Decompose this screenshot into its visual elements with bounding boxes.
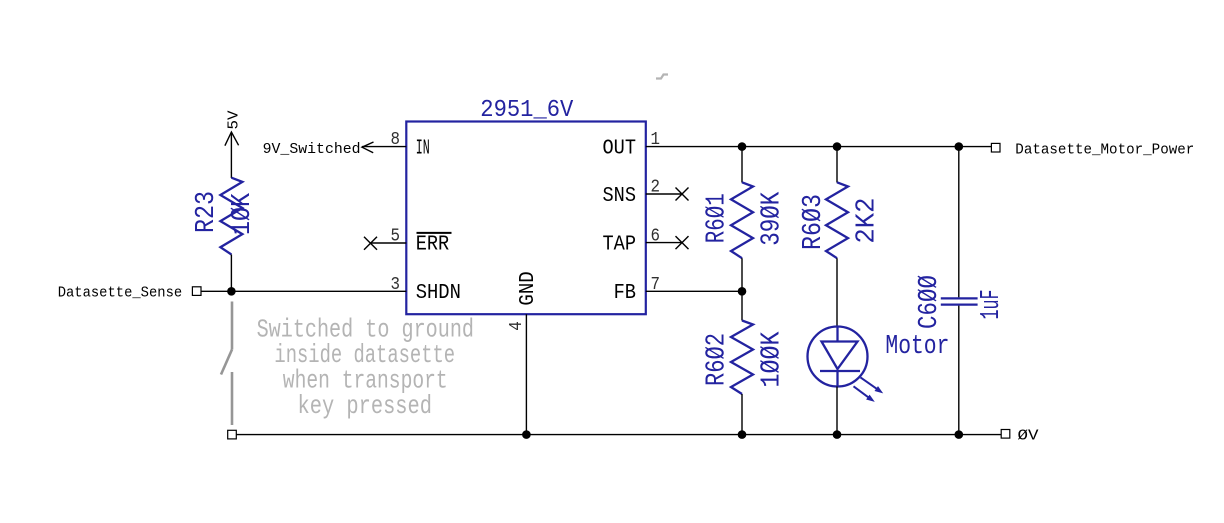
LED light arrow 1: [861, 377, 884, 393]
svg-text:inside datasette: inside datasette: [274, 342, 455, 370]
LED light arrow 2: [854, 386, 875, 402]
switch upper contact wire (grey): [231, 302, 234, 350]
svg-text:Datasette_Motor_Power: Datasette_Motor_Power: [1015, 141, 1194, 158]
svg-text:Datasette_Sense: Datasette_Sense: [58, 284, 183, 301]
net terminal square Datasette_Sense: [192, 287, 201, 296]
LED cathode lead inside: [836, 371, 838, 387]
svg-text:7: 7: [651, 275, 661, 295]
svg-text:FB: FB: [614, 282, 636, 305]
net terminal square Datasette_Motor_Power: [991, 143, 1000, 152]
LED triangle: [822, 342, 858, 370]
svg-text:SHDN: SHDN: [416, 282, 461, 305]
junction node GND/rail: [522, 430, 531, 439]
wire GND pin 4 to 0V rail: [525, 314, 527, 434]
wire R603 to LED: [836, 258, 838, 326]
svg-text:C6ØØ: C6ØØ: [915, 275, 945, 329]
resistor R23: [220, 178, 242, 255]
switch lower contact wire (grey): [231, 372, 234, 425]
wire ERR stub pin 5: [371, 242, 407, 244]
junction node C600/rail: [955, 430, 964, 439]
junction node OUT/C600: [955, 142, 964, 151]
svg-text:R23: R23: [192, 191, 222, 233]
net terminal square switch bottom: [228, 430, 237, 439]
svg-text:2K2: 2K2: [853, 198, 883, 244]
wire OUT to R603: [836, 147, 838, 183]
svg-text:1ØØK: 1ØØK: [758, 331, 788, 387]
svg-text:5V: 5V: [226, 111, 243, 130]
wire OUT to C600: [958, 147, 960, 298]
wire R602 to 0V rail: [741, 394, 743, 435]
svg-text:R6Ø1: R6Ø1: [703, 193, 733, 243]
switch lever (grey): [221, 350, 232, 375]
svg-text:39ØK: 39ØK: [758, 192, 788, 246]
wire TAP stub pin 6: [646, 242, 682, 244]
svg-text:1ØK: 1ØK: [228, 193, 258, 235]
capacitor C600 plates: [941, 298, 978, 304]
resistor R603: [826, 182, 848, 258]
U1 pin name ERR with overline: [416, 233, 452, 256]
svg-text:TAP: TAP: [603, 233, 637, 256]
wire FB pin 7 to divider node: [646, 290, 742, 292]
svg-text:Motor: Motor: [885, 332, 949, 362]
resistor R601: [731, 182, 753, 258]
svg-text:2951_6V: 2951_6V: [480, 96, 573, 123]
svg-text:SNS: SNS: [603, 185, 637, 208]
svg-text:key pressed: key pressed: [298, 394, 433, 422]
no-connect X on ERR pin 5: [364, 237, 377, 250]
wire Datasette_Sense to SHDN pin 3: [201, 290, 406, 292]
LED anode lead inside: [836, 327, 838, 342]
LED cathode bar: [820, 370, 860, 372]
wire LED to 0V rail: [836, 387, 838, 435]
svg-text:ØV: ØV: [1018, 428, 1039, 445]
LED circle: [808, 327, 868, 387]
junction node OUT/R601: [738, 142, 747, 151]
svg-text:1uF: 1uF: [977, 290, 1007, 320]
wire OUT to R601: [741, 147, 743, 183]
wire 9V_Switched to IN pin 8: [362, 146, 406, 148]
resistor R602: [731, 321, 753, 395]
junction node R602/rail: [738, 430, 747, 439]
no-connect X on SNS: [676, 188, 689, 201]
net terminal square 0V: [1001, 430, 1010, 439]
wire SNS stub pin 2: [646, 193, 682, 195]
svg-text:ERR: ERR: [416, 233, 450, 256]
wire OUT rail pin 1: [646, 146, 992, 148]
input arrow 9V_Switched: [362, 142, 374, 153]
no-connect X on TAP: [676, 236, 689, 249]
wire R601 to FB node: [741, 258, 743, 320]
wire R23 to sense node: [230, 255, 232, 292]
svg-text:9V_Switched: 9V_Switched: [263, 141, 361, 158]
svg-text:4: 4: [507, 321, 527, 331]
svg-text:GND: GND: [517, 271, 540, 305]
junction node FB divider: [738, 287, 747, 296]
wire 0V rail: [236, 434, 1001, 436]
svg-text:OUT: OUT: [603, 137, 637, 160]
svg-text:Switched to ground: Switched to ground: [257, 317, 474, 345]
wire 5V to R23: [230, 132, 232, 178]
junction node LED/rail: [833, 430, 842, 439]
op-amp/regulator U1 2951_6V box: [406, 122, 646, 315]
junction node sense/R23: [227, 287, 236, 296]
junction node OUT/R603: [833, 142, 842, 151]
power arrow 5V: [225, 132, 239, 146]
svg-text:R6Ø3: R6Ø3: [799, 194, 829, 250]
svg-text:R6Ø2: R6Ø2: [703, 333, 733, 386]
svg-text:IN: IN: [416, 137, 430, 160]
stray grey mark: [656, 75, 668, 79]
wire C600 to 0V rail: [958, 306, 960, 435]
svg-text:when transport: when transport: [283, 368, 448, 396]
svg-text:3: 3: [391, 275, 401, 295]
